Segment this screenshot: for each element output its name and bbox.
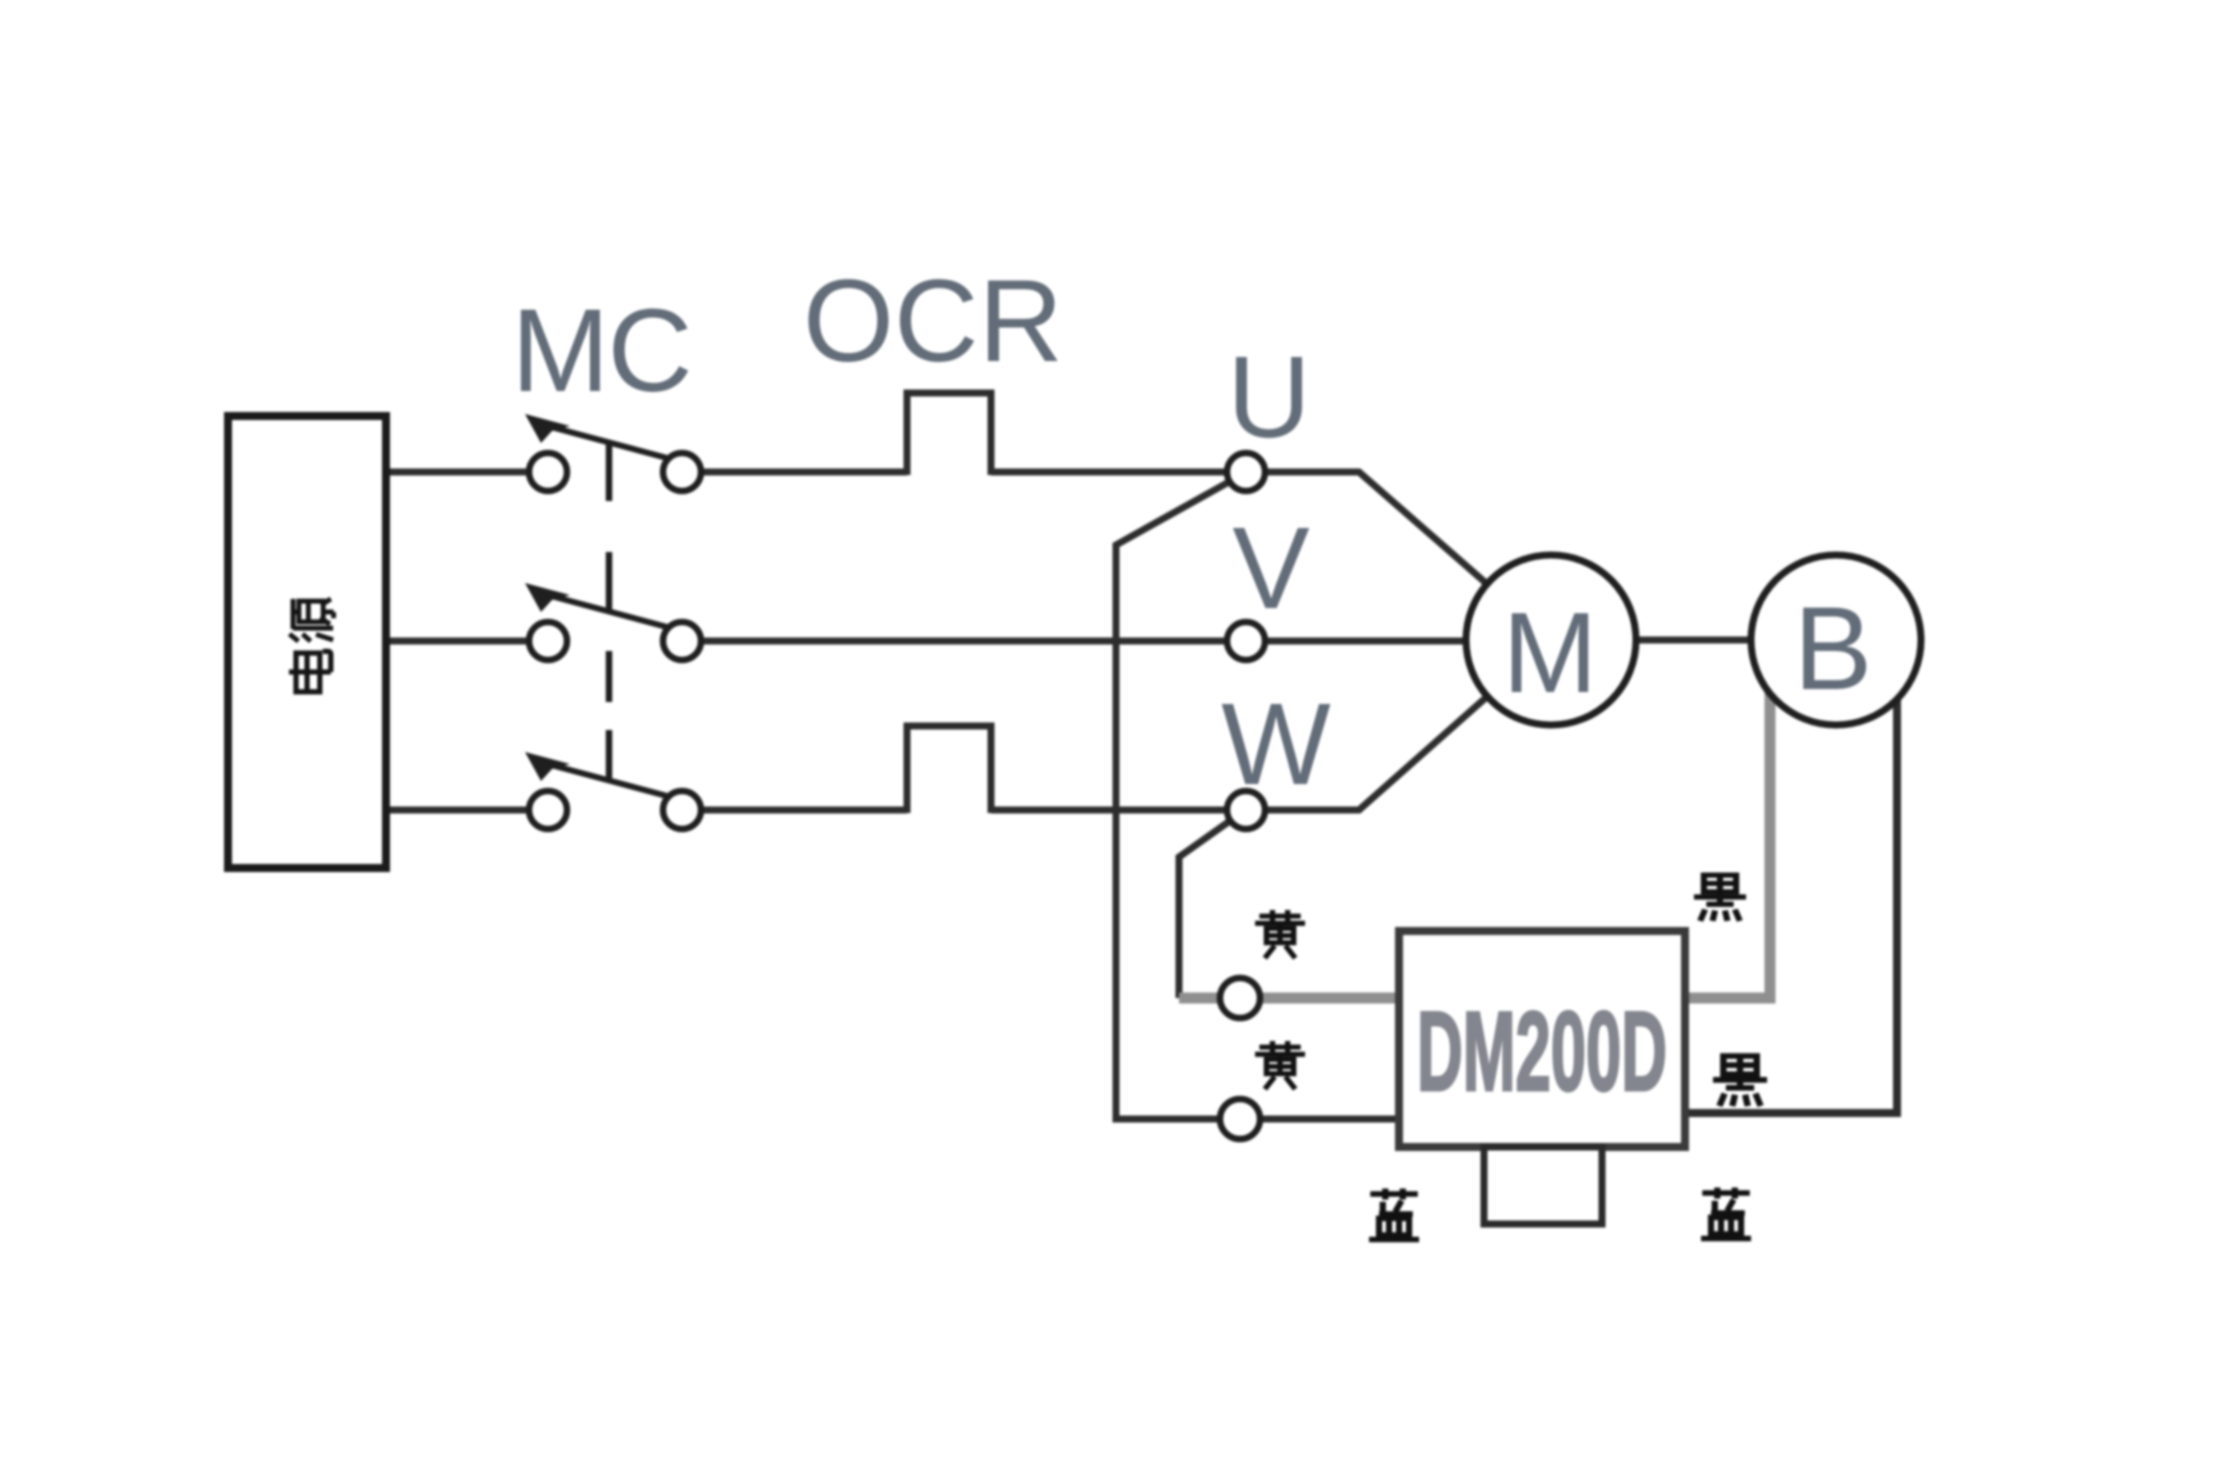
contactor MC pole1 arrowhead xyxy=(525,414,570,443)
contactor MC pole3 blade xyxy=(540,762,682,800)
contactor MC pole2 left contact xyxy=(529,622,567,660)
power source label 源 (rotated hand glyph) xyxy=(289,599,333,641)
label 黑 upper (hand glyph) xyxy=(1694,875,1746,921)
wire terminal U down to yellow lead (lower) of DM200D xyxy=(1116,478,1399,1119)
label 蓝 right (hand glyph) xyxy=(1701,1188,1751,1239)
contactor MC pole3 arrowhead xyxy=(525,752,570,781)
motor M circle xyxy=(1466,555,1636,725)
label 蓝 left (hand glyph) xyxy=(1369,1189,1419,1240)
svg-text:M: M xyxy=(1503,590,1598,717)
terminal V xyxy=(1227,622,1265,660)
wire motor M to brake B xyxy=(1551,637,1836,644)
wire L3 power to MC pole3 xyxy=(387,807,548,814)
DM200D box xyxy=(1399,931,1685,1147)
yellow lead terminal upper xyxy=(1220,978,1260,1018)
contactor MC pole1 right contact xyxy=(663,453,701,491)
wire OCR element1 to terminal U xyxy=(991,469,1246,476)
yellow lead terminal lower xyxy=(1220,1099,1260,1139)
MC linkage dashed line xyxy=(606,444,613,778)
contactor MC pole2 right contact xyxy=(663,622,701,660)
black lead wire lower: DM200D to brake B xyxy=(1685,640,1897,1113)
contactor MC pole3 left contact xyxy=(529,791,567,829)
wire L1 power to MC pole1 xyxy=(387,469,548,476)
svg-text:U: U xyxy=(1227,332,1311,462)
label 黑 lower (hand glyph) xyxy=(1713,1056,1767,1106)
contactor MC pole1 left contact xyxy=(529,453,567,491)
DM200D bottom tab xyxy=(1484,1147,1602,1224)
yellow lead wire into DM200D (gray) xyxy=(1179,993,1399,1004)
black lead wire upper: DM200D to brake B (gray) xyxy=(1685,640,1770,998)
wire terminal V to motor M xyxy=(1246,638,1551,645)
terminal W xyxy=(1227,791,1265,829)
contactor MC pole3 right contact xyxy=(663,791,701,829)
contactor MC pole2 blade xyxy=(540,593,682,631)
wire terminal W to motor M xyxy=(1246,640,1551,810)
wire MC pole2 to terminal V xyxy=(682,638,1246,645)
svg-text:B: B xyxy=(1794,583,1873,715)
brake B circle xyxy=(1751,555,1921,725)
svg-text:DM200D: DM200D xyxy=(1417,989,1667,1114)
power source box xyxy=(228,416,386,868)
svg-text:V: V xyxy=(1232,503,1309,633)
overcurrent relay OCR element1 xyxy=(907,393,991,475)
label 黄 lower (hand glyph) xyxy=(1255,1041,1305,1089)
overcurrent relay OCR element2 xyxy=(907,726,991,813)
wire terminal U to motor M xyxy=(1246,472,1551,640)
contactor MC pole2 arrowhead xyxy=(525,583,570,612)
wire MC pole1 to OCR element1 xyxy=(682,469,907,476)
terminal U xyxy=(1227,453,1265,491)
wire L2 power to MC pole2 xyxy=(387,638,548,645)
svg-text:MC: MC xyxy=(511,285,691,417)
wire MC pole3 to OCR element2 xyxy=(682,807,907,814)
contactor MC pole1 blade xyxy=(540,424,682,462)
label 黄 upper (hand glyph) xyxy=(1255,910,1305,958)
power source label 电 (rotated hand glyph) xyxy=(289,651,331,692)
wire terminal W down to yellow lead (upper) of DM200D xyxy=(1179,818,1234,998)
wire OCR element2 to terminal W xyxy=(991,807,1246,814)
svg-text:OCR: OCR xyxy=(803,255,1063,386)
svg-text:W: W xyxy=(1221,679,1331,809)
